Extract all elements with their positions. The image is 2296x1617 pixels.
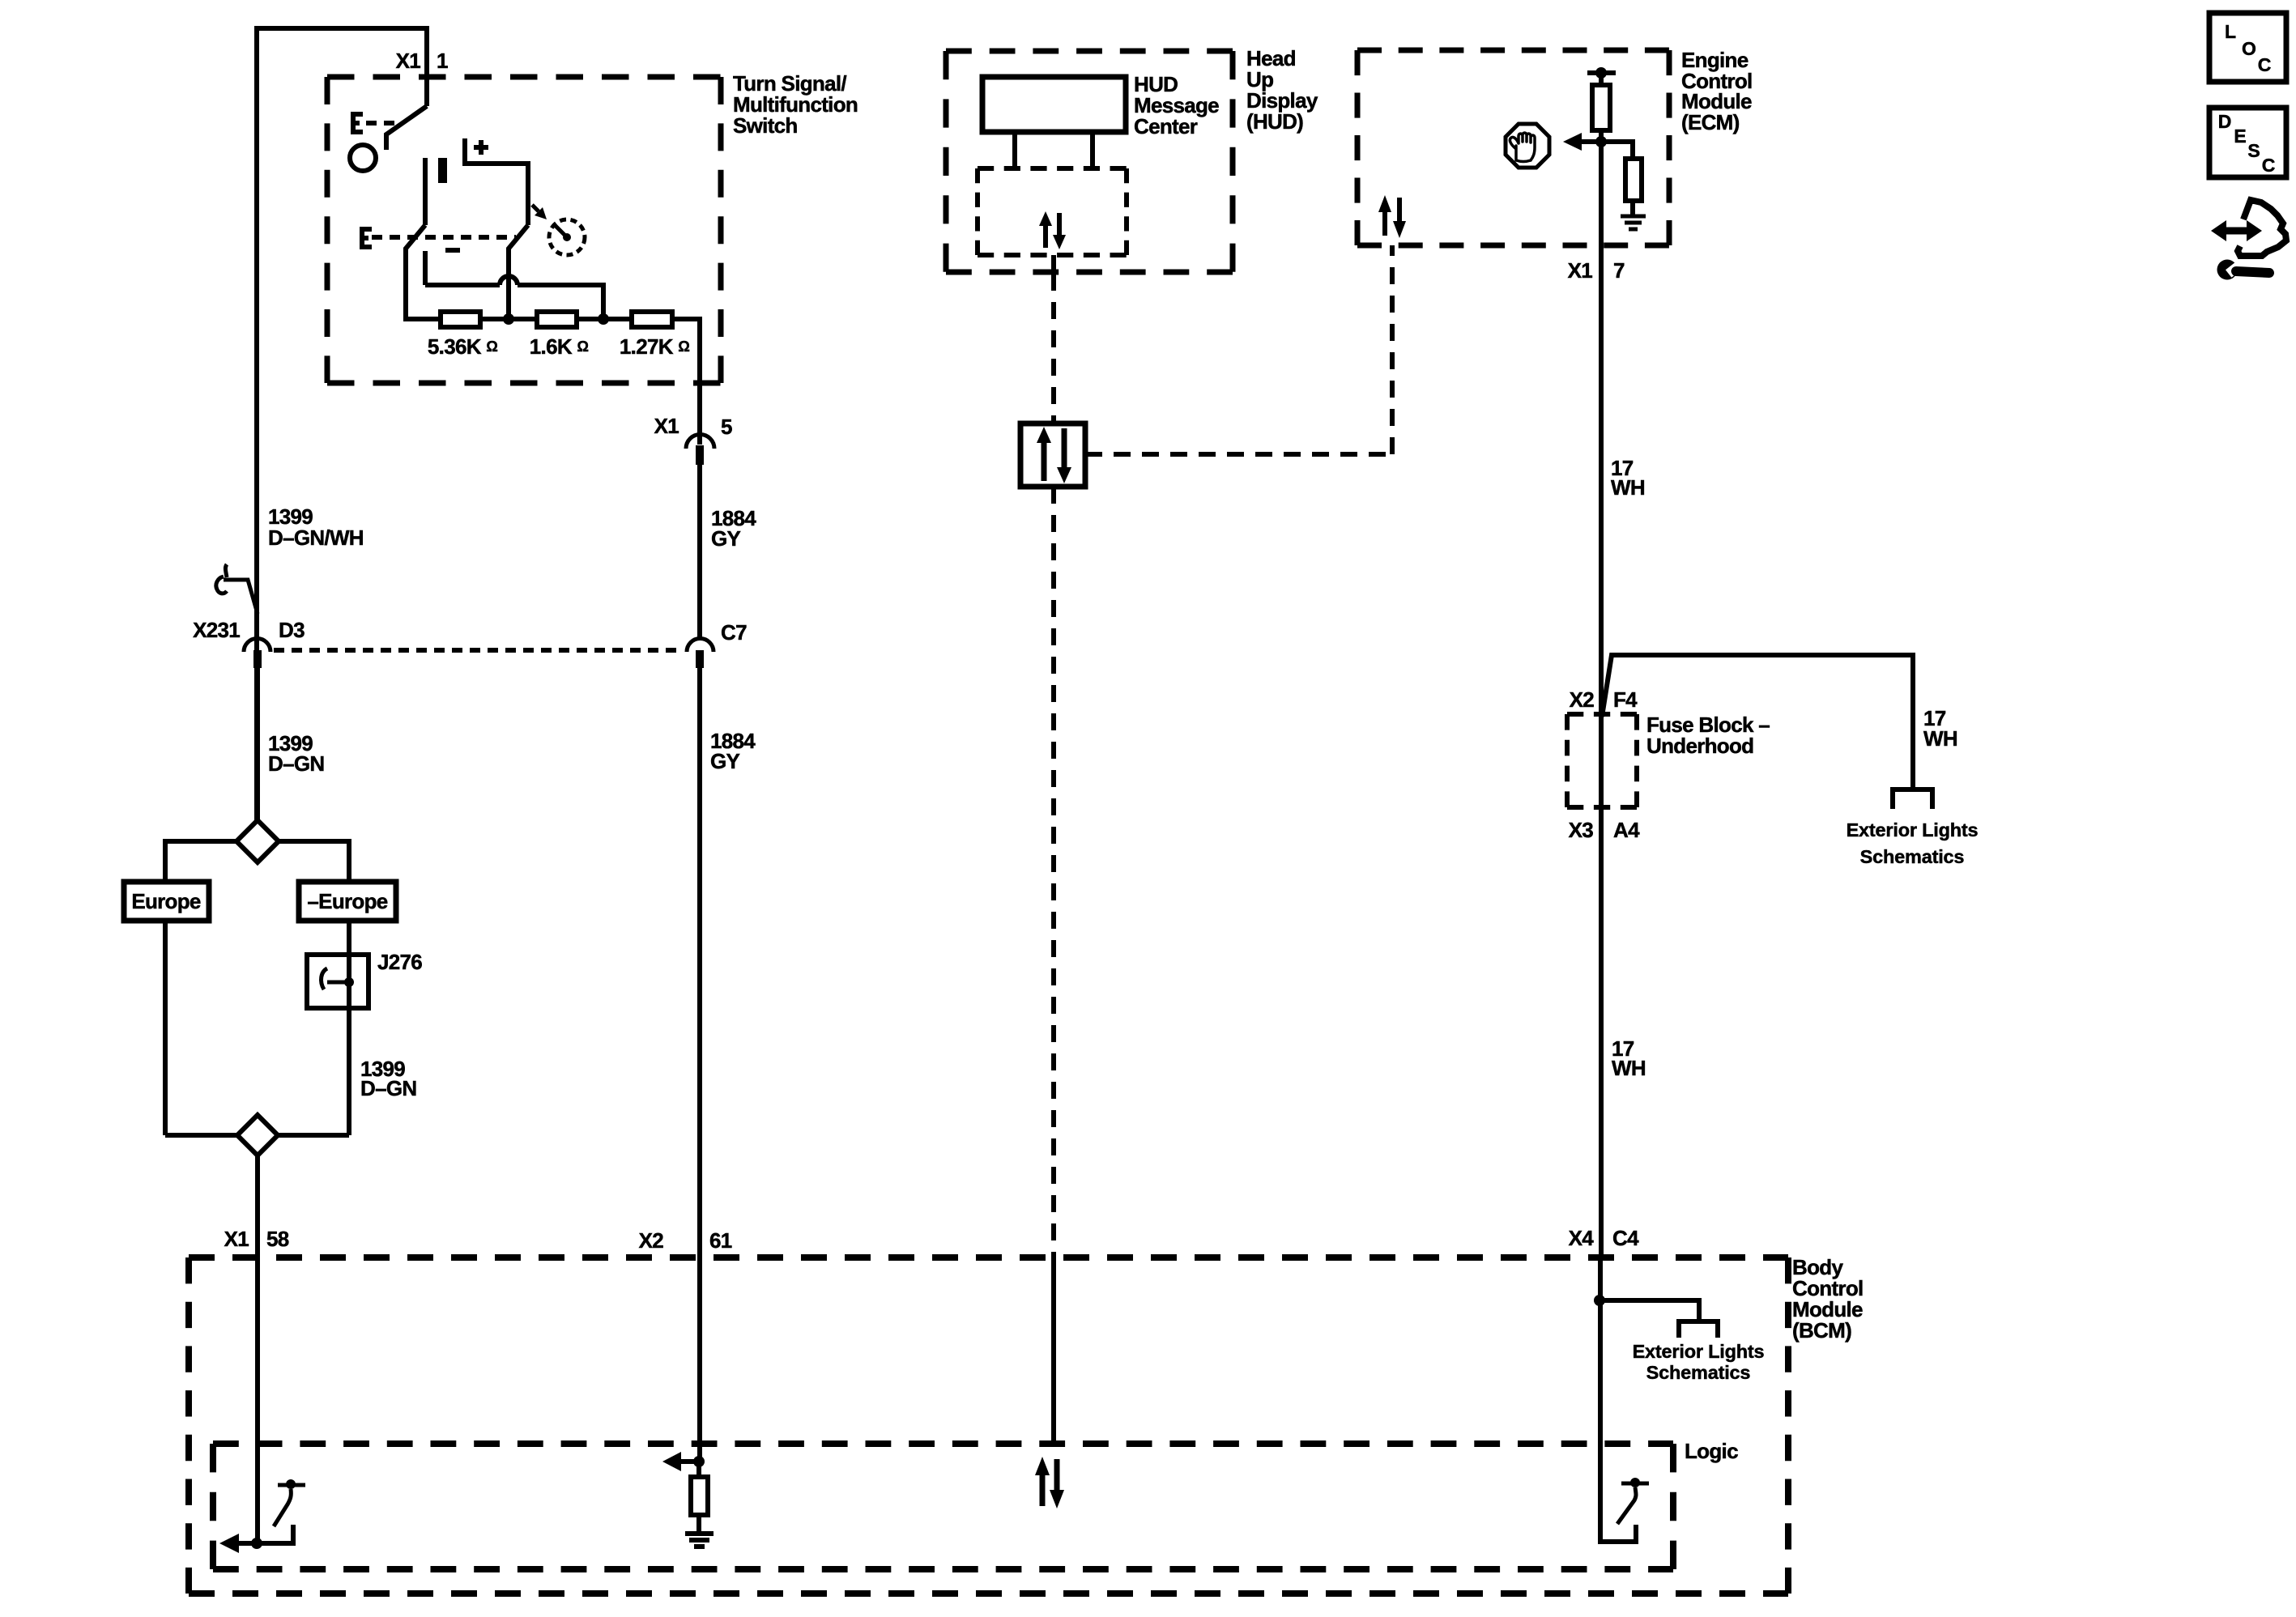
svg-text:D–GN/WH: D–GN/WH bbox=[268, 526, 364, 550]
svg-text:E: E bbox=[2234, 126, 2246, 147]
svg-text:GY: GY bbox=[710, 749, 740, 773]
svg-text:7: 7 bbox=[1613, 258, 1625, 283]
svg-text:C: C bbox=[2258, 54, 2272, 75]
svg-text:D–GN: D–GN bbox=[360, 1076, 416, 1100]
svg-text:GY: GY bbox=[711, 526, 741, 551]
svg-text:Schematics: Schematics bbox=[1860, 846, 1965, 867]
svg-text:WH: WH bbox=[1612, 1056, 1646, 1080]
svg-text:X231: X231 bbox=[193, 618, 240, 642]
svg-text:Center: Center bbox=[1134, 114, 1198, 138]
svg-text:X2: X2 bbox=[639, 1228, 664, 1253]
svg-text:X1: X1 bbox=[396, 49, 421, 73]
svg-text:–Europe: –Europe bbox=[307, 889, 387, 913]
svg-text:A4: A4 bbox=[1613, 818, 1640, 842]
svg-text:Schematics: Schematics bbox=[1646, 1362, 1751, 1383]
svg-text:WH: WH bbox=[1923, 726, 1957, 751]
svg-text:Exterior Lights: Exterior Lights bbox=[1633, 1341, 1765, 1362]
svg-text:S: S bbox=[2247, 140, 2260, 161]
svg-text:X2: X2 bbox=[1570, 687, 1595, 712]
svg-text:Logic: Logic bbox=[1685, 1439, 1738, 1463]
svg-text:F4: F4 bbox=[1613, 687, 1638, 712]
svg-text:Exterior Lights: Exterior Lights bbox=[1847, 819, 1979, 840]
svg-text:Switch: Switch bbox=[733, 113, 798, 138]
svg-text:X4: X4 bbox=[1569, 1226, 1595, 1250]
svg-text:X1: X1 bbox=[654, 414, 679, 438]
svg-text:61: 61 bbox=[709, 1228, 732, 1253]
svg-text:O: O bbox=[2242, 38, 2256, 59]
svg-text:X3: X3 bbox=[1569, 818, 1594, 842]
svg-text:J276: J276 bbox=[377, 950, 422, 974]
svg-text:58: 58 bbox=[266, 1227, 289, 1251]
svg-text:Europe: Europe bbox=[131, 889, 201, 913]
svg-text:C4: C4 bbox=[1612, 1226, 1639, 1250]
svg-text:D–GN: D–GN bbox=[268, 751, 324, 776]
svg-text:(ECM): (ECM) bbox=[1681, 110, 1740, 134]
svg-text:C: C bbox=[2262, 155, 2276, 176]
svg-text:WH: WH bbox=[1611, 475, 1645, 500]
svg-text:X1: X1 bbox=[1568, 258, 1593, 283]
svg-text:D: D bbox=[2218, 111, 2232, 132]
svg-text:C7: C7 bbox=[721, 620, 747, 645]
svg-text:D3: D3 bbox=[279, 618, 305, 642]
svg-text:Underhood: Underhood bbox=[1646, 734, 1753, 758]
svg-text:1: 1 bbox=[437, 49, 448, 73]
svg-text:(HUD): (HUD) bbox=[1246, 109, 1303, 134]
svg-text:(BCM): (BCM) bbox=[1792, 1318, 1851, 1343]
svg-text:5: 5 bbox=[721, 415, 732, 439]
svg-text:L: L bbox=[2225, 21, 2236, 42]
svg-text:X1: X1 bbox=[224, 1227, 249, 1251]
